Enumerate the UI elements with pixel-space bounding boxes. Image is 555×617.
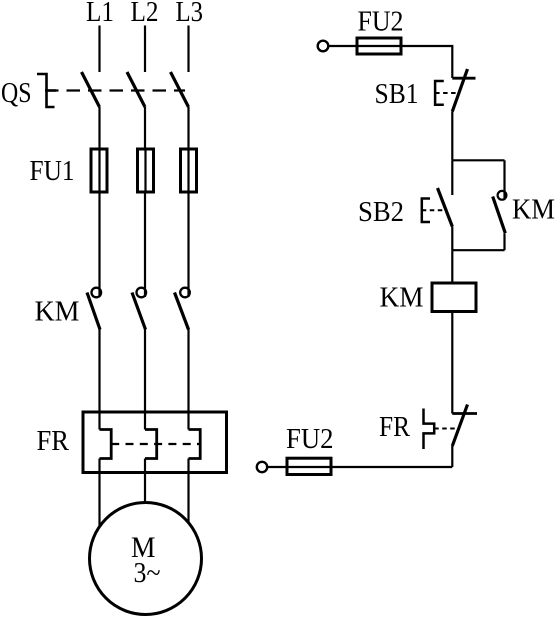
wire QS to FU1 pole 1 (98, 107, 100, 149)
label FR (overload relay) (37, 425, 70, 457)
disconnect switch QS pole 3 blade (171, 72, 189, 107)
svg-text:SB1: SB1 (375, 78, 419, 110)
terminal (control bottom) (257, 462, 267, 472)
svg-text:FR: FR (379, 411, 411, 443)
svg-text:FU1: FU1 (30, 156, 75, 187)
wire FU1 to KM pole 1 (98, 192, 100, 297)
wire FR to motor pole 3 (187, 459, 189, 524)
wire terminal to FU2 top (328, 45, 357, 47)
wire FU2 to SB1 (401, 46, 452, 78)
wire branch to coil (451, 250, 453, 283)
svg-text:QS: QS (1, 77, 32, 109)
wire QS to FU1 pole 2 (144, 107, 146, 149)
svg-text:L2: L2 (131, 0, 159, 28)
FR heater element pole 2 (145, 430, 157, 459)
contactor KM main contact pole 3 (175, 288, 190, 330)
label SB2 (358, 196, 404, 228)
wire KM to FR pole 3 (187, 329, 189, 430)
wire parallel branch top (452, 159, 504, 161)
wire SB2 to branch bottom (451, 227, 453, 251)
svg-text:FR: FR (37, 425, 70, 457)
contact KM auxiliary (NO self-holding) (493, 191, 507, 233)
QS linkage dashed line (45, 89, 185, 91)
FR heater element pole 1 (100, 430, 112, 459)
wire coil to FR contact (451, 312, 453, 414)
label FU2 top (358, 6, 404, 38)
wire branch right upper (503, 160, 505, 198)
wire parallel branch bottom (452, 249, 504, 251)
contactor KM main contact pole 2 (132, 288, 146, 330)
wire FR to motor pole 2 (144, 459, 146, 504)
svg-text:FU2: FU2 (358, 6, 404, 38)
fuse FU2 (bottom) (287, 458, 331, 474)
wire KM to FR pole 1 (98, 329, 100, 430)
wire branch to SB2 (451, 160, 453, 195)
label KM main contacts (35, 296, 80, 328)
coil KM (432, 283, 476, 312)
svg-text:SB2: SB2 (358, 196, 404, 228)
svg-text:KM: KM (35, 296, 80, 328)
wire fuse to terminal bottom (268, 466, 288, 468)
label 3~ (134, 557, 161, 589)
svg-text:KM: KM (380, 282, 424, 314)
label M (131, 531, 156, 564)
fuse FU1 pole 3 (181, 149, 197, 192)
wire FR to motor pole 1 (98, 459, 100, 527)
FR linkage dashed line (111, 443, 200, 445)
QS operator bracket (37, 74, 56, 107)
svg-text:3~: 3~ (134, 557, 161, 589)
label FR contact (379, 411, 411, 443)
wire L2 lead (144, 26, 146, 73)
svg-text:L3: L3 (176, 0, 204, 28)
label FU2 bottom (286, 423, 334, 455)
terminal (control top) (318, 41, 329, 52)
disconnect switch QS pole 2 blade (127, 72, 145, 107)
pushbutton SB1 (NC stop) (435, 69, 475, 112)
svg-text:KM: KM (512, 194, 555, 226)
wire KM to FR pole 2 (144, 329, 146, 430)
wire SB1 to branch top (451, 112, 453, 161)
svg-text:FU2: FU2 (286, 423, 334, 455)
wire KM aux to branch bottom (503, 234, 505, 251)
wire L3 lead (187, 26, 189, 73)
wire QS to FU1 pole 3 (187, 107, 189, 149)
contact FR (NC thermal) (452, 405, 477, 447)
svg-text:L1: L1 (86, 0, 114, 28)
FR heater element pole 3 (189, 430, 201, 459)
wire bottom rail (331, 466, 452, 468)
label KM coil (380, 282, 424, 314)
wire FU1 to KM pole 3 (187, 192, 189, 297)
wire L1 lead (98, 26, 100, 73)
fuse FU1 pole 2 (138, 149, 154, 192)
node L2 (131, 0, 159, 28)
node L1 (86, 0, 114, 28)
fuse FU1 pole 1 (91, 149, 107, 192)
label SB1 (375, 78, 419, 110)
FR thermal operator (424, 409, 457, 450)
wire FR contact to bottom rail (451, 446, 453, 467)
disconnect switch QS pole 1 blade (82, 72, 100, 107)
fuse FU2 (top) (357, 38, 401, 54)
label KM auxiliary (512, 194, 555, 226)
wire FU1 to KM pole 2 (144, 192, 146, 297)
label QS (1, 77, 32, 109)
contactor KM main contact pole 1 (87, 288, 101, 330)
thermal relay FR box (83, 412, 227, 473)
label FU1 (30, 156, 75, 187)
motor M circle (90, 503, 202, 615)
pushbutton SB2 (NO start) (422, 188, 453, 227)
node L3 (176, 0, 204, 28)
